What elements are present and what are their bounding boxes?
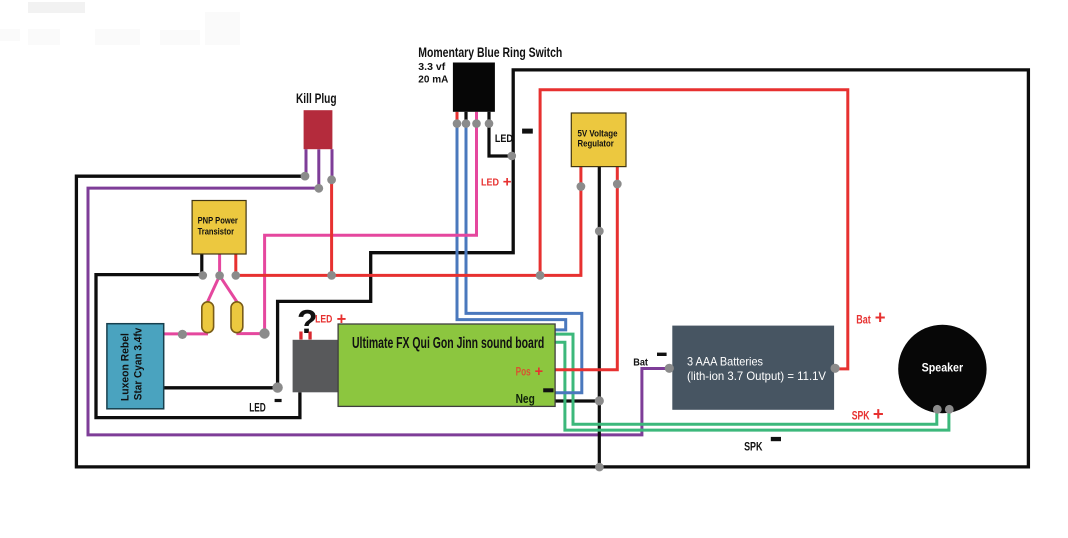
wire red junction up over top to battery plus: [540, 90, 848, 369]
wire black PNP left leg stub: [200, 254, 203, 275]
node speaker terminal dots: [933, 405, 942, 414]
momentary switch body: [453, 63, 495, 112]
svg-text:Kill Plug: Kill Plug: [296, 91, 337, 106]
svg-text:Luxeon Rebel: Luxeon Rebel: [120, 333, 132, 401]
node Luxeon magenta dot: [178, 330, 187, 339]
node red junction at kill plug leg: [327, 271, 336, 280]
speaker body: [898, 325, 986, 413]
wire green SPK+ board to speaker: [555, 334, 937, 424]
wire magenta Y split to resistor tops: [208, 276, 237, 302]
Luxeon Rebel body: [107, 324, 164, 409]
svg-text:3.3 vf: 3.3 vf: [418, 62, 446, 73]
wire black PNP to kill-plug-return loop via gray box: [96, 275, 300, 418]
wire red regulator right leg to Pos: [555, 167, 617, 370]
node regulator leg dots: [577, 182, 586, 191]
node PNP leg dots: [199, 271, 208, 280]
wire black sound board Neg to regulator vertical: [555, 399, 599, 402]
LED polarity ticks: [299, 332, 302, 340]
svg-text:LED: LED: [315, 314, 332, 326]
node battery terminal dots: [665, 364, 674, 373]
wire black switch pin2 stub: [464, 112, 467, 122]
node switch pin dots: [453, 119, 462, 128]
node magenta junction dot: [259, 328, 269, 338]
wire red switch pin1 stub: [456, 112, 459, 122]
svg-text:(lith-ion 3.7 Output) = 11.1V: (lith-ion 3.7 Output) = 11.1V: [687, 370, 826, 383]
wire red PNP right leg stub: [234, 254, 237, 275]
svg-text:Bat: Bat: [633, 356, 648, 368]
wire black switch pin4 to LED- vertical: [489, 112, 512, 156]
svg-text:+: +: [873, 403, 884, 424]
svg-text:Neg: Neg: [516, 391, 535, 406]
wire black main LED- ground net: border loop + kill plug line + staircase to Luxeon: [76, 70, 1028, 467]
sound board body: [338, 324, 555, 406]
svg-text:+: +: [535, 364, 543, 380]
wire magenta resistor2 bottom to junction: [238, 330, 265, 334]
wire red main horizontal to regulator left leg: [236, 167, 581, 276]
svg-text:Transistor: Transistor: [198, 226, 235, 237]
wire blue switch pin1 to sound board (inner): [457, 124, 566, 330]
battery pack body: [672, 326, 834, 410]
svg-text:PNP Power: PNP Power: [198, 215, 239, 226]
wire purple kill plug right leg: [331, 149, 334, 180]
wire magenta PNP middle leg stub: [218, 254, 221, 276]
svg-text:LED: LED: [249, 403, 266, 415]
resistor capsule 1: [202, 302, 214, 333]
svg-text:3 AAA Batteries: 3 AAA Batteries: [687, 356, 763, 369]
node red junction at x540: [536, 271, 545, 280]
wire magenta switch pin3 LED+ to resistor junction: [265, 112, 477, 334]
svg-text:+: +: [875, 307, 886, 328]
node kill plug leg dots: [301, 172, 310, 181]
wire black regulator middle leg down to bottom border: [598, 167, 601, 467]
5V voltage regulator body: [571, 113, 626, 167]
PNP power transistor body: [192, 201, 246, 255]
svg-text:Regulator: Regulator: [578, 139, 615, 149]
svg-text:Pos: Pos: [516, 366, 531, 378]
node Neg junction dot: [595, 396, 604, 405]
resistor capsule 2: [231, 302, 243, 333]
wire purple kill plug middle leg to battery minus: [88, 149, 669, 435]
svg-text:SPK: SPK: [852, 410, 870, 423]
svg-text:Star Cyan 3.4fv: Star Cyan 3.4fv: [133, 327, 145, 400]
svg-text:SPK: SPK: [744, 441, 763, 453]
svg-text:+: +: [503, 174, 512, 191]
svg-text:Speaker: Speaker: [922, 363, 964, 375]
svg-text:Momentary Blue Ring Switch: Momentary Blue Ring Switch: [418, 45, 562, 61]
faint watermark ghost top-left: [0, 2, 240, 45]
node switch LED- junction: [508, 152, 517, 161]
unknown LED gray box: [293, 340, 338, 393]
node bottom border dot: [595, 463, 604, 472]
svg-text:Ultimate FX Qui Gon Jinn sound: Ultimate FX Qui Gon Jinn sound board: [352, 335, 544, 352]
svg-text:LED: LED: [481, 177, 499, 188]
svg-text:LED: LED: [495, 133, 513, 145]
wire green SPK- board to speaker: [555, 342, 949, 430]
svg-text:5V Voltage: 5V Voltage: [578, 129, 618, 139]
svg-text:20 mA: 20 mA: [418, 75, 449, 86]
kill plug body: [304, 110, 333, 149]
svg-text:Bat: Bat: [856, 312, 871, 326]
wire magenta Luxeon to resistor1 bottom: [164, 332, 208, 335]
node black junction dot at Luxeon wire: [272, 382, 282, 392]
wire red kill plug right leg down: [330, 180, 333, 276]
wire blue switch pin2 to sound board (outer): [466, 124, 582, 393]
wire purple kill plug left leg: [305, 149, 308, 176]
